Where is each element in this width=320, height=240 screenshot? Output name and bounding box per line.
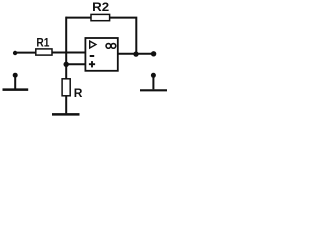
- ground (left): [3, 88, 29, 91]
- wire left terminal stub: [14, 75, 16, 89]
- node G1 (left ground terminal dot): [13, 73, 18, 78]
- node OUT (output terminal dot): [151, 51, 156, 56]
- op-amp U1 plus input label: [89, 61, 95, 67]
- svg-text:R1: R1: [36, 35, 49, 49]
- node A (junction dot, non-inverting input net): [63, 62, 68, 67]
- wire R2 to output node: [110, 18, 137, 54]
- op-amp U1 minus input label: [90, 55, 95, 57]
- wire node A to op-amp non-inverting input: [66, 63, 85, 65]
- ground (right): [140, 89, 167, 91]
- node IN (input terminal dot): [13, 51, 17, 55]
- wire right terminal stub: [152, 75, 154, 89]
- resistor R: [62, 79, 83, 100]
- ground (below R): [52, 113, 80, 116]
- wire op-amp output: [118, 53, 154, 55]
- op-amp U1 body: [85, 38, 117, 71]
- resistor R1: [36, 35, 52, 55]
- wire R1 to op-amp inverting input: [52, 52, 86, 54]
- svg-text:R: R: [74, 86, 83, 100]
- wire input terminal to R1: [15, 52, 36, 54]
- wire R2 top leg: [66, 17, 91, 19]
- node B (feedback junction dot on output): [133, 51, 138, 56]
- node G2 (right ground terminal dot): [151, 73, 156, 78]
- op-amp U1 triangle symbol: [90, 41, 96, 48]
- resistor R2: [91, 0, 110, 21]
- wire resistor R to ground: [65, 96, 67, 114]
- wire feedback vertical (R2 left end down through node A to resistor R): [65, 17, 67, 79]
- op-amp U1 infinity gain symbol: [106, 44, 116, 49]
- svg-text:R2: R2: [92, 0, 109, 14]
